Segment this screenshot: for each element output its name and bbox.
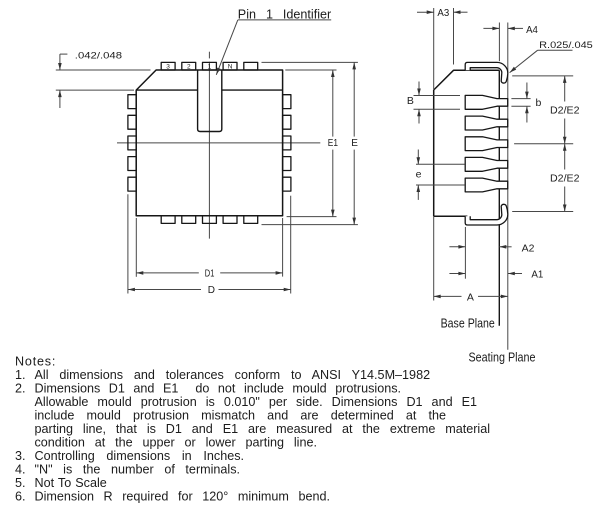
svg-text:D2/E2: D2/E2	[550, 106, 580, 117]
label Base Plane	[441, 317, 495, 331]
chamfer shelf line across body	[136, 89, 282, 91]
dimension D2/E2 lower line and arrows	[563, 144, 567, 212]
svg-text:B: B	[407, 95, 414, 107]
svg-text:condition at the upper or lowe: condition at the upper or lower parting …	[35, 436, 317, 450]
top lead 3 (pin 1)	[203, 62, 217, 70]
side view J-lead 5 (face-on, tapered)	[465, 178, 508, 192]
svg-text:A3: A3	[437, 7, 449, 19]
svg-text:Controlling dimensions in Inch: Controlling dimensions in Inches.	[35, 449, 245, 463]
svg-text:4.: 4.	[15, 463, 26, 477]
package body outline (side view)	[434, 70, 500, 216]
dimension A3 extension lines	[434, 8, 454, 90]
left lead 3	[128, 136, 136, 150]
dimension A2 extension line	[464, 227, 466, 279]
left lead 4	[128, 157, 136, 171]
svg-text:Base Plane: Base Plane	[441, 317, 495, 331]
dimension D2/E2 extension lines	[512, 76, 573, 212]
vertical centerline of package (top view)	[208, 52, 210, 239]
dimension D1 line and arrows	[136, 271, 282, 275]
label D2/E2 upper	[550, 106, 580, 117]
top lead 4 (pin N)	[223, 62, 237, 70]
right lead 3	[283, 136, 291, 150]
dimension A1 arrows	[449, 272, 522, 276]
top lead 2 (pin 2)	[182, 62, 196, 70]
dimension E1 extension lines	[285, 70, 336, 217]
right lead 1	[283, 95, 291, 109]
dimension A extension continues	[433, 216, 435, 300]
dimension e arrows	[417, 150, 421, 200]
right lead 4	[283, 157, 291, 171]
package body outline (top view)	[136, 70, 282, 216]
bottom lead 5	[244, 216, 258, 224]
label A3	[437, 7, 449, 19]
top lead 5	[244, 62, 258, 70]
dimension b arrows	[525, 83, 529, 123]
svg-text:D2/E2: D2/E2	[550, 174, 580, 185]
label A	[467, 291, 474, 303]
svg-text:Not To Scale: Not To Scale	[35, 476, 107, 490]
dimension .042/.048 extension lines	[56, 70, 151, 90]
svg-text:N: N	[228, 63, 233, 70]
svg-text:A: A	[467, 291, 474, 303]
svg-text:A4: A4	[526, 24, 538, 36]
side view J-lead 3 (face-on, tapered)	[465, 137, 508, 151]
seating plane line	[507, 23, 509, 350]
dimension .042/.048 arrows	[58, 54, 67, 108]
bottom lead 4	[223, 216, 237, 224]
label A2	[522, 242, 535, 254]
right lead 2	[283, 115, 291, 129]
label A1	[531, 269, 543, 281]
svg-text:3: 3	[166, 63, 170, 70]
svg-text:Dimensions D1 and E1 do not i: Dimensions D1 and E1 do not include moul…	[35, 381, 402, 395]
side view J-lead 1 (face-on, tapered)	[465, 95, 508, 109]
label B	[407, 95, 414, 107]
left lead 5	[128, 177, 136, 191]
dimension D2/E2 upper line and arrows	[563, 76, 567, 144]
label E1	[328, 138, 339, 149]
label Seating Plane	[469, 351, 536, 365]
dimension A line and arrows	[434, 295, 508, 299]
pin 1 identifier notch	[198, 70, 222, 132]
dimension E1 line and arrows	[331, 70, 335, 217]
dimension E line and arrows	[352, 62, 356, 224]
leader line for corner radius	[510, 50, 573, 72]
bottom lead 1	[161, 216, 175, 224]
label D1	[205, 269, 215, 280]
label E	[351, 138, 358, 149]
svg-text:All dimensions and tolerances: All dimensions and tolerances conform to…	[35, 368, 431, 382]
dimension A3 arrows	[417, 10, 468, 14]
svg-text:E1: E1	[328, 138, 339, 149]
value R.025/.045	[539, 40, 593, 50]
svg-text:2: 2	[187, 63, 191, 70]
label b	[536, 97, 542, 109]
dimension A2 arrows	[449, 245, 511, 249]
side view J-lead 2 (face-on, tapered)	[465, 116, 508, 130]
svg-text:D1: D1	[205, 269, 215, 280]
svg-text:.042/.048: .042/.048	[75, 51, 122, 61]
svg-text:Pin 1 Identifier: Pin 1 Identifier	[238, 7, 331, 21]
dimension E extension lines	[262, 62, 358, 224]
notes text block	[15, 354, 490, 503]
svg-text:Seating Plane: Seating Plane	[469, 351, 536, 365]
svg-text:1: 1	[208, 63, 212, 70]
dimension D1 extension lines	[136, 218, 282, 277]
svg-text:E: E	[351, 138, 358, 149]
corner J-lead curl under bottom edge (side view)	[465, 204, 508, 225]
horizontal centerline of package (top view)	[117, 142, 320, 144]
label A4	[526, 24, 538, 36]
dimension D extension lines	[128, 194, 291, 293]
label e	[416, 169, 422, 181]
svg-text:3.: 3.	[15, 449, 26, 463]
bottom lead 3	[203, 216, 217, 224]
value .042/.048	[75, 51, 122, 61]
dimension A4 arrows	[483, 27, 523, 31]
dimension b lines	[511, 99, 530, 107]
svg-text:R.025/.045: R.025/.045	[539, 40, 593, 50]
leader line to pin 1 notch	[216, 20, 331, 75]
base plane line / body right face	[498, 70, 500, 325]
label D	[208, 285, 215, 296]
dimension B extension lines	[414, 96, 461, 110]
lead centerlines for e pitch	[416, 164, 465, 185]
dimension D line and arrows	[128, 288, 291, 292]
svg-text:parting line, that is D1 and E: parting line, that is D1 and E1 are meas…	[35, 422, 491, 436]
dimension B arrows	[417, 82, 421, 124]
svg-text:D: D	[208, 285, 215, 296]
svg-text:e: e	[416, 169, 422, 181]
svg-text:1.: 1.	[15, 368, 26, 382]
svg-text:Notes:: Notes:	[15, 354, 56, 368]
svg-text:Dimension R required for 120°: Dimension R required for 120° minimum be…	[35, 490, 331, 504]
svg-text:A2: A2	[522, 242, 535, 254]
left lead 1	[128, 95, 136, 109]
label D2/E2 lower	[550, 174, 580, 185]
svg-text:Allowable mould protrusion is: Allowable mould protrusion is 0.010" per…	[35, 395, 478, 409]
svg-text:A1: A1	[531, 269, 543, 281]
label Pin 1 Identifier	[238, 7, 331, 21]
right lead 5	[283, 177, 291, 191]
bottom lead 2	[182, 216, 196, 224]
top lead 1 (pin 3)	[161, 62, 175, 70]
svg-text:2.: 2.	[15, 381, 26, 395]
dimension A4 extension lines	[498, 23, 500, 62]
left lead 2	[128, 115, 136, 129]
svg-text:5.: 5.	[15, 476, 26, 490]
side view J-lead 4 (face-on, tapered)	[465, 157, 508, 171]
svg-text:6.: 6.	[15, 490, 26, 504]
corner J-lead curl over top edge (side view)	[465, 62, 508, 83]
svg-text:b: b	[536, 97, 542, 109]
svg-text:include mould protrusion misma: include mould protrusion mismatch and ar…	[35, 408, 447, 422]
svg-text:"N" is the number of terminals: "N" is the number of terminals.	[35, 463, 241, 477]
